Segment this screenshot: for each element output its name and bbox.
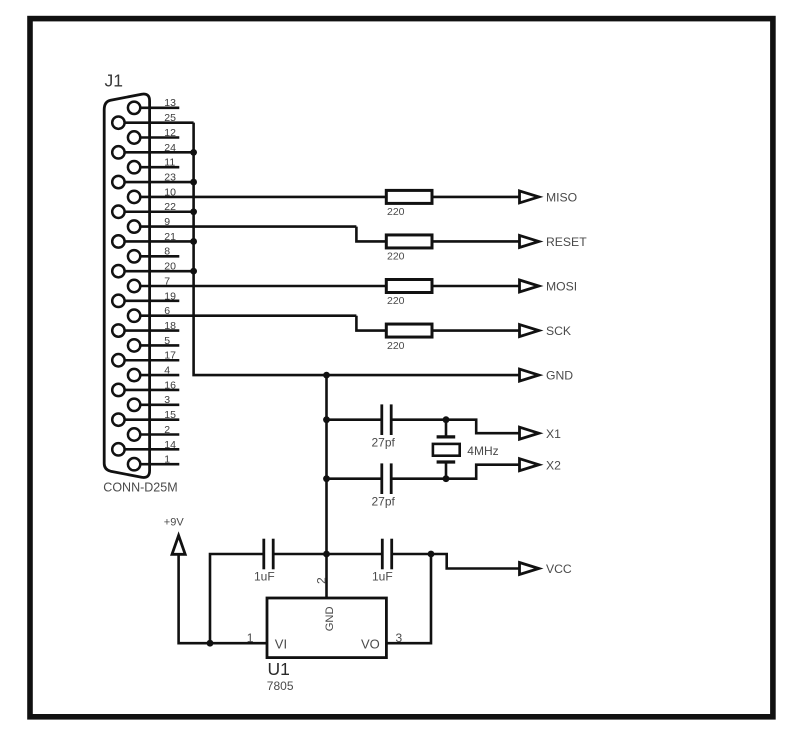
J1 pin 16 pad — [112, 384, 124, 396]
wire J1 pin 5 stub — [140, 344, 180, 347]
wire ground branch vertical (GND line to regulator pin 2) — [325, 375, 328, 598]
terminal arrow X2 — [520, 459, 539, 471]
svg-text:MOSI: MOSI — [546, 280, 577, 294]
resistor 220 (MISO line) — [386, 190, 432, 203]
wire J1 pin 12 stub — [140, 136, 180, 139]
J1 pin 14 pad — [112, 443, 124, 455]
svg-text:11: 11 — [164, 157, 175, 169]
svg-text:RESET: RESET — [546, 235, 587, 249]
wire X2 (crystal bottom to terminal) — [446, 465, 520, 479]
J1 pin 18 pad — [112, 324, 124, 336]
svg-text:GND: GND — [324, 606, 336, 631]
svg-text:3: 3 — [396, 631, 403, 645]
svg-text:1: 1 — [247, 631, 254, 645]
svg-text:22: 22 — [164, 201, 176, 213]
wire J1 pin 6 (SCK) horizontal — [140, 314, 357, 317]
J1 pin 13 pad — [128, 102, 140, 114]
wire VCC node down to VO row — [386, 554, 431, 643]
wire ground branch to C4 — [327, 553, 383, 556]
svg-text:16: 16 — [164, 379, 176, 391]
wire J1 pin 21 to ground bus — [124, 240, 194, 243]
wire J1 pin 7 (MOSI) to resistor — [140, 285, 386, 288]
wire VCC terminal — [431, 554, 520, 569]
junction +9V row / C3 branch — [207, 640, 214, 647]
svg-text:6: 6 — [164, 305, 170, 317]
J1 pin 24 pad — [112, 146, 124, 158]
ground bus wire (pins 25-20 to GND line) — [194, 123, 520, 375]
svg-text:VCC: VCC — [546, 562, 572, 576]
svg-text:13: 13 — [164, 97, 176, 109]
J1 pin 20 pad — [112, 265, 124, 277]
J1 pin 8 pad — [128, 250, 140, 262]
wire resistor to MOSI terminal — [432, 285, 520, 288]
svg-text:15: 15 — [164, 409, 176, 421]
wire J1 pin 18 stub — [124, 329, 179, 332]
J1 pin 11 pad — [128, 161, 140, 173]
wire C3 branch vertical — [210, 554, 264, 643]
wire +9V down to VI row — [179, 554, 267, 643]
svg-text:X2: X2 — [546, 458, 561, 472]
svg-text:10: 10 — [164, 186, 176, 198]
power symbol +9V arrow — [172, 536, 185, 555]
svg-text:220: 220 — [387, 206, 405, 218]
svg-text:23: 23 — [164, 171, 176, 183]
svg-text:+9V: +9V — [164, 517, 185, 529]
wire C2 row right segment — [391, 477, 446, 480]
wire resistor to RESET terminal — [432, 240, 520, 243]
svg-text:14: 14 — [164, 439, 176, 451]
junction pin 24 on ground bus — [190, 149, 197, 156]
J1 pin 5 pad — [128, 339, 140, 351]
capacitor C3 1uF plates — [262, 539, 265, 570]
svg-text:X1: X1 — [546, 427, 561, 441]
svg-text:J1: J1 — [105, 71, 123, 91]
wire J1 pin 24 to ground bus — [124, 151, 194, 154]
wire J1 pin 9 (RESET) horizontal — [140, 225, 357, 228]
wire resistor to MISO terminal — [432, 196, 520, 199]
wire J1 pin 25 to ground bus — [124, 121, 194, 124]
terminal arrow MOSI — [520, 280, 539, 292]
svg-text:MISO: MISO — [546, 191, 577, 205]
J1 pin 7 pad — [128, 280, 140, 292]
J1 pin 2 pad — [128, 428, 140, 440]
J1 pin 21 pad — [112, 235, 124, 247]
svg-text:CONN-D25M: CONN-D25M — [103, 481, 177, 495]
wire X1 (crystal top to terminal) — [446, 420, 520, 434]
junction crystal bottom / X2 — [443, 475, 450, 482]
wire J1 pin 3 stub — [140, 403, 180, 406]
junction pin 23 on ground bus — [190, 179, 197, 186]
wire C3 to ground branch — [273, 553, 326, 556]
J1 pin 10 pad — [128, 191, 140, 203]
wire J1 pin 19 stub — [124, 300, 179, 303]
terminal arrow GND — [520, 369, 539, 381]
terminal arrow SCK — [520, 325, 539, 337]
wire C2 row left segment — [327, 477, 382, 480]
J1 pin 25 pad — [112, 116, 124, 128]
svg-text:7805: 7805 — [267, 679, 294, 693]
svg-text:GND: GND — [546, 369, 573, 383]
resistor 220 (SCK line) — [386, 324, 432, 337]
J1 pin 6 pad — [128, 310, 140, 322]
junction ground branch / C1 row — [323, 416, 330, 423]
wire J1 pin 22 to ground bus — [124, 210, 194, 213]
wire J1 pin 23 to ground bus — [124, 181, 194, 184]
svg-text:17: 17 — [164, 350, 176, 362]
wire J1 pin 11 stub — [140, 166, 180, 169]
svg-text:12: 12 — [164, 127, 176, 139]
svg-text:VO: VO — [361, 637, 380, 652]
wire resistor to SCK terminal — [432, 329, 520, 332]
wire J1 pin 20 to ground bus — [124, 270, 194, 273]
junction ground branch / C2 row — [323, 475, 330, 482]
regulator U1 body — [267, 598, 386, 658]
wire J1 pin 17 stub — [124, 359, 179, 362]
junction VCC node — [428, 551, 435, 558]
svg-text:1uF: 1uF — [254, 570, 275, 584]
svg-text:18: 18 — [164, 320, 176, 332]
terminal arrow X1 — [520, 427, 539, 439]
wire C1 row left segment — [327, 418, 382, 421]
J1 pin 23 pad — [112, 176, 124, 188]
wire J1 pin 15 stub — [124, 418, 179, 421]
svg-text:220: 220 — [387, 340, 405, 352]
junction pin 20 on ground bus — [190, 268, 197, 275]
wire J1 pin 10 (MISO) to resistor — [140, 196, 386, 199]
wire J1 pin 2 stub — [140, 433, 180, 436]
svg-text:SCK: SCK — [546, 324, 571, 338]
svg-text:27pf: 27pf — [372, 494, 396, 508]
junction pin 22 on ground bus — [190, 208, 197, 215]
svg-text:3: 3 — [164, 394, 170, 406]
J1 pin 3 pad — [128, 399, 140, 411]
junction pin 21 on ground bus — [190, 238, 197, 245]
svg-text:24: 24 — [164, 142, 176, 154]
J1 pin 9 pad — [128, 220, 140, 232]
junction GND line / ground branch — [323, 372, 330, 379]
capacitor C1 27pf plates — [380, 404, 383, 435]
svg-text:1uF: 1uF — [372, 570, 393, 584]
wire SCK step (pin 6 down to resistor row) — [356, 316, 386, 331]
terminal arrow RESET — [520, 235, 539, 247]
svg-text:220: 220 — [387, 251, 405, 263]
wire C4 to VCC node — [392, 553, 431, 556]
wire RESET step (pin 9 down to resistor row) — [356, 227, 386, 242]
J1 pin 17 pad — [112, 354, 124, 366]
svg-text:20: 20 — [164, 261, 176, 273]
wire J1 pin 13 stub — [140, 107, 180, 110]
capacitor C4 1uF plates — [381, 539, 384, 570]
wire C1 row right segment — [391, 418, 446, 421]
svg-text:19: 19 — [164, 290, 176, 302]
svg-text:27pf: 27pf — [372, 435, 396, 449]
junction crystal top / X1 — [443, 416, 450, 423]
capacitor C2 27pf plates — [380, 463, 383, 494]
svg-text:4: 4 — [164, 365, 170, 377]
svg-text:1: 1 — [164, 454, 170, 466]
resistor 220 (MOSI line) — [386, 280, 432, 293]
svg-text:VI: VI — [275, 637, 287, 652]
wire J1 pin 8 stub — [140, 255, 180, 258]
terminal arrow VCC — [520, 563, 539, 575]
svg-text:5: 5 — [164, 335, 170, 347]
junction ground branch / cap row — [323, 551, 330, 558]
J1 pin 15 pad — [112, 413, 124, 425]
svg-text:8: 8 — [164, 246, 170, 258]
svg-text:4MHz: 4MHz — [467, 444, 498, 458]
wire J1 pin 4 stub — [140, 374, 180, 377]
svg-text:25: 25 — [164, 112, 176, 124]
svg-text:21: 21 — [164, 231, 176, 243]
svg-text:220: 220 — [387, 295, 405, 307]
J1 pin 4 pad — [128, 369, 140, 381]
J1 pin 1 pad — [128, 458, 140, 470]
J1 pin 12 pad — [128, 131, 140, 143]
J1 pin 22 pad — [112, 206, 124, 218]
wire J1 pin 16 stub — [124, 389, 179, 392]
J1 pin 19 pad — [112, 295, 124, 307]
connector J1 body (CONN-D25M) — [104, 94, 149, 477]
svg-text:9: 9 — [164, 216, 170, 228]
svg-text:U1: U1 — [268, 659, 290, 679]
svg-text:2: 2 — [315, 577, 329, 584]
resistor 220 (RESET line) — [386, 235, 432, 248]
svg-text:2: 2 — [164, 424, 170, 436]
terminal arrow MISO — [520, 191, 539, 203]
wire J1 pin 14 stub — [124, 448, 179, 451]
svg-text:7: 7 — [164, 275, 170, 287]
wire J1 pin 1 stub — [140, 463, 180, 466]
crystal X 4MHz — [433, 420, 460, 479]
